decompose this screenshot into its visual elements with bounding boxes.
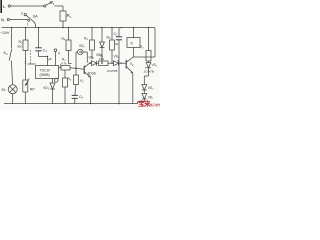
svg-text:1: 1: [27, 23, 29, 27]
svg-text:R2: R2: [140, 45, 144, 50]
svg-text:R4: R4: [62, 37, 66, 42]
svg-text:VD3: VD3: [89, 56, 95, 61]
svg-text:V2: V2: [130, 62, 134, 67]
svg-text:K2: K2: [4, 50, 9, 56]
svg-text:2CW7B: 2CW7B: [107, 69, 117, 73]
svg-text:R8: R8: [68, 77, 72, 82]
svg-text:K: K: [131, 41, 134, 46]
svg-text:VS1: VS1: [114, 55, 120, 60]
svg-text:VS2: VS2: [152, 63, 158, 68]
svg-text:N: N: [1, 18, 4, 23]
svg-text:(555B): (555B): [40, 73, 50, 77]
svg-text:V1: V1: [80, 79, 84, 84]
svg-text:RL: RL: [67, 13, 72, 19]
svg-text:C1: C1: [43, 49, 48, 54]
svg-text:RP: RP: [30, 88, 36, 92]
svg-text:R2: R2: [107, 36, 111, 41]
svg-text:4.7k: 4.7k: [61, 62, 67, 66]
svg-text:~24V: ~24V: [0, 30, 10, 35]
svg-text:K1: K1: [50, 0, 55, 6]
svg-text:C2: C2: [114, 32, 119, 37]
svg-text:SA: SA: [33, 14, 39, 19]
svg-text:2: 2: [21, 12, 23, 16]
svg-text:VF: VF: [48, 57, 52, 61]
svg-text:R1: R1: [84, 37, 88, 42]
svg-text:3k: 3k: [115, 42, 119, 46]
svg-text:VD3: VD3: [43, 86, 50, 91]
svg-text:VD1: VD1: [148, 96, 154, 101]
svg-text:4: 4: [58, 52, 60, 56]
svg-text:300: 300: [17, 45, 22, 49]
svg-text:270: 270: [99, 57, 104, 61]
svg-text:2CW7B: 2CW7B: [144, 70, 154, 74]
svg-text:VD5: VD5: [79, 44, 85, 49]
svg-text:L: L: [3, 4, 6, 9]
svg-text:C3: C3: [79, 95, 84, 100]
svg-text:TDC1F: TDC1F: [40, 69, 51, 73]
svg-text:3DG6: 3DG6: [88, 71, 97, 75]
svg-text:EL: EL: [2, 87, 8, 92]
svg-text:VD2: VD2: [148, 86, 154, 91]
svg-text:2: 2: [25, 61, 27, 65]
